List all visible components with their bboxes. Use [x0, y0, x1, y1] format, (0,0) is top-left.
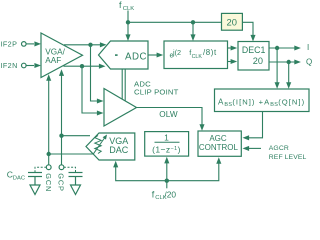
svg-text:20: 20 [227, 16, 237, 27]
svg-text:CONTROL: CONTROL [199, 143, 239, 152]
svg-text:IF2N: IF2N [1, 61, 18, 70]
svg-text:Q: Q [306, 58, 312, 67]
svg-text:GCN: GCN [44, 173, 53, 192]
svg-text:/8)t: /8)t [203, 48, 217, 57]
svg-text:DEC1: DEC1 [242, 45, 266, 55]
svg-text:GCP: GCP [57, 173, 66, 191]
svg-text:IF2P: IF2P [1, 40, 18, 49]
svg-text:j(2: j(2 [172, 48, 181, 57]
svg-text:f: f [119, 0, 122, 10]
svg-text:DAC: DAC [13, 175, 25, 181]
svg-text:AAF: AAF [45, 56, 61, 65]
svg-text:1: 1 [164, 132, 169, 142]
svg-text:CLK: CLK [123, 6, 135, 12]
svg-text:CLK: CLK [192, 54, 203, 60]
svg-text:REF LEVEL: REF LEVEL [269, 154, 307, 161]
svg-text:20: 20 [253, 56, 263, 66]
svg-text:CLIP POINT: CLIP POINT [134, 88, 179, 97]
svg-text:ADC: ADC [125, 52, 147, 63]
svg-text:/20: /20 [164, 189, 176, 199]
svg-text:I: I [307, 43, 309, 52]
svg-text:AGC: AGC [209, 134, 227, 143]
svg-text:f: f [152, 189, 155, 199]
svg-text:DAC: DAC [109, 145, 129, 155]
svg-text:AGCR: AGCR [269, 145, 289, 152]
svg-text:OLW: OLW [159, 110, 178, 119]
